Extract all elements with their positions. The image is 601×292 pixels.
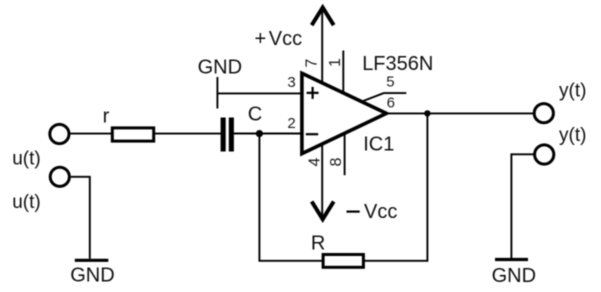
svg-text:u(t): u(t) <box>12 149 41 170</box>
svg-text:GND: GND <box>492 265 536 287</box>
svg-text:3: 3 <box>287 74 295 91</box>
svg-text:r: r <box>103 106 110 128</box>
svg-text:R: R <box>311 232 325 254</box>
svg-text:y(t): y(t) <box>559 81 586 102</box>
svg-text:Vcc: Vcc <box>364 201 397 223</box>
svg-text:4: 4 <box>306 157 323 166</box>
svg-text:6: 6 <box>387 95 395 112</box>
svg-text:GND: GND <box>70 264 114 286</box>
svg-text:Vcc: Vcc <box>269 28 302 50</box>
svg-text:GND: GND <box>198 56 242 78</box>
svg-text:u(t): u(t) <box>12 192 41 213</box>
svg-text:C: C <box>248 104 262 126</box>
svg-text:7: 7 <box>304 59 321 68</box>
svg-text:+: + <box>255 28 267 50</box>
svg-text:LF356N: LF356N <box>362 53 433 75</box>
svg-text:8: 8 <box>328 157 345 166</box>
svg-text:IC1: IC1 <box>363 133 394 155</box>
svg-text:2: 2 <box>287 115 295 132</box>
svg-text:1: 1 <box>327 58 344 67</box>
svg-text:y(t): y(t) <box>559 125 586 146</box>
svg-text:5: 5 <box>386 74 394 91</box>
